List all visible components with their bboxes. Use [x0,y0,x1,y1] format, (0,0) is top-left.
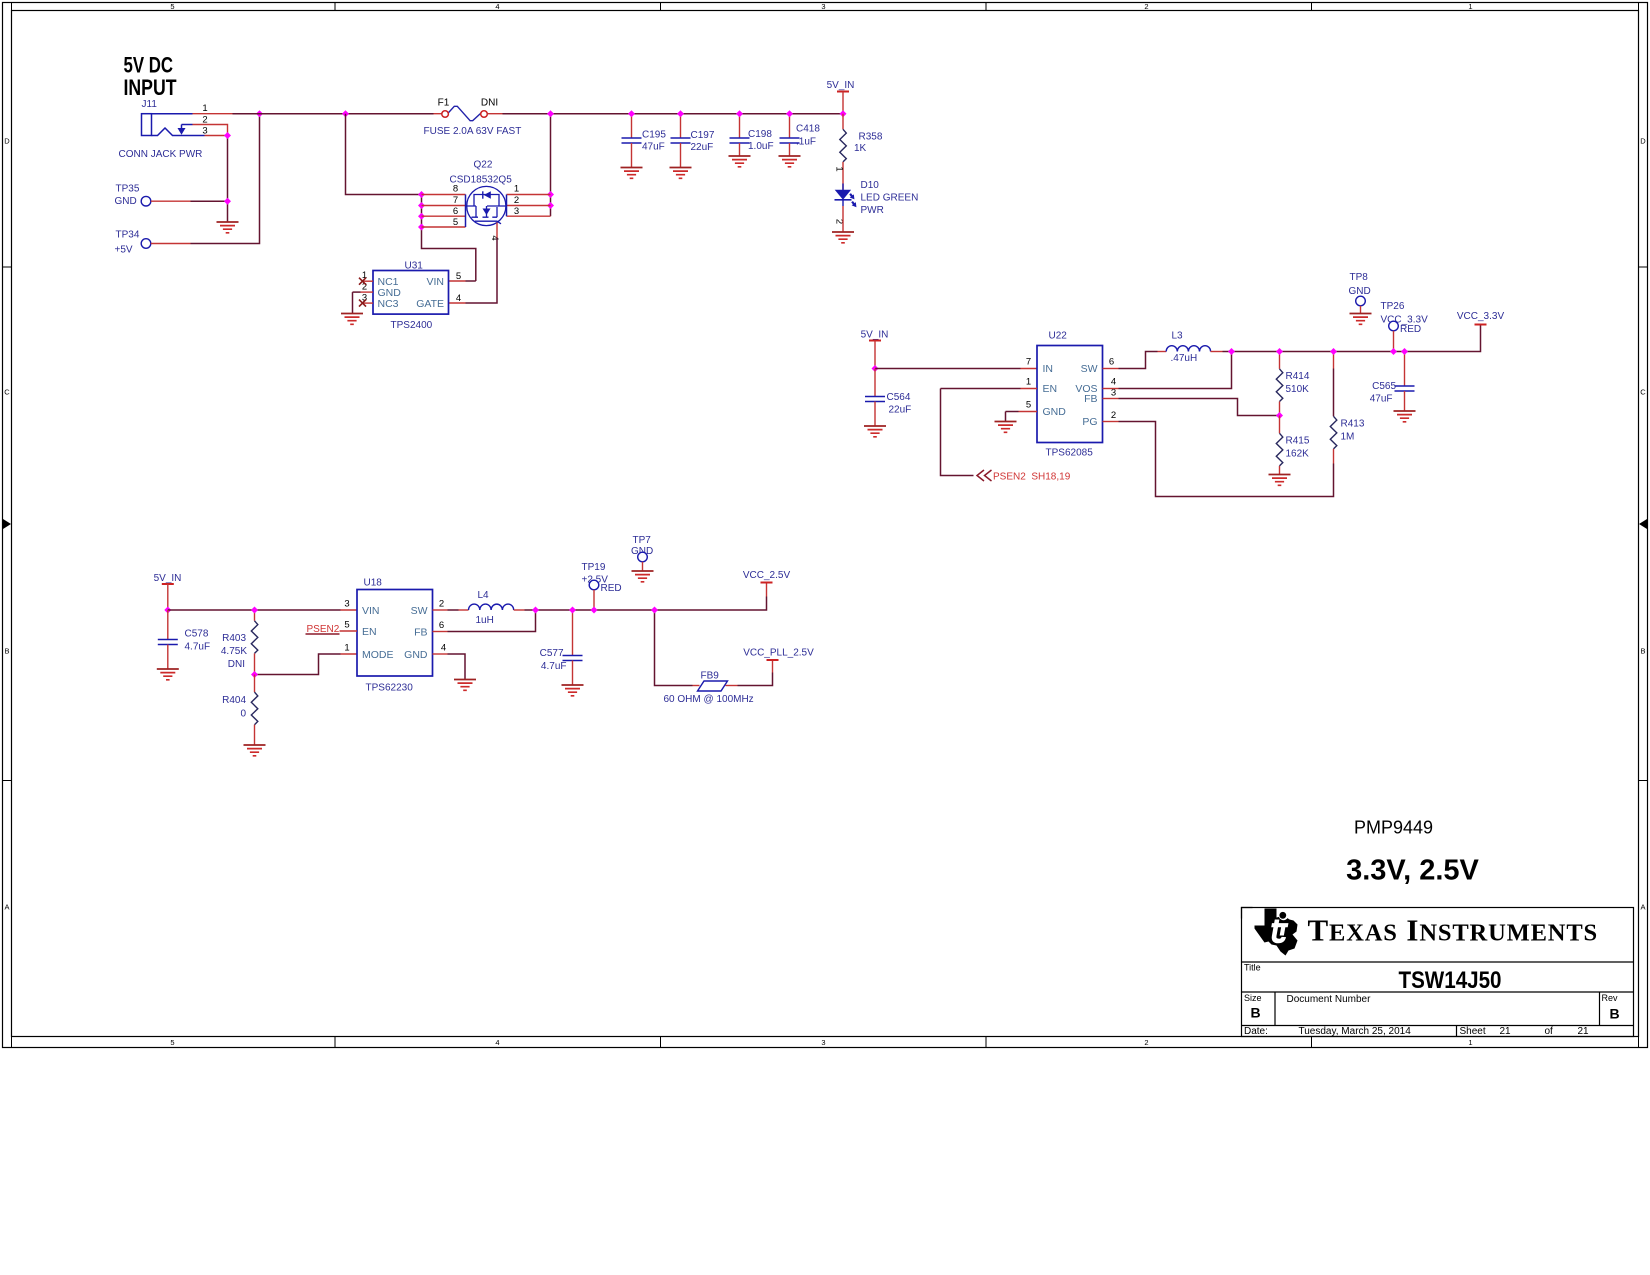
svg-text:C: C [1640,388,1646,397]
wire 5V_IN to U22 IN [875,368,1021,370]
node junction R403 top [251,607,258,614]
resistor R415 162K [1276,416,1310,475]
svg-text:FUSE 2.0A 63V FAST: FUSE 2.0A 63V FAST [424,126,522,137]
ferrite bead FB9 60 OHM [664,671,754,706]
svg-text:2: 2 [202,114,207,125]
node junctions Q22 left [418,191,425,198]
svg-text:2: 2 [1144,1038,1148,1047]
ground at R404 [244,745,266,756]
svg-text:PWR: PWR [861,205,884,216]
wire U31 GND pin to ground [361,291,374,293]
op-amp U18 TPS62230 [344,578,446,694]
wire U22 FB [1103,398,1119,400]
svg-text:GND: GND [1349,286,1371,297]
test point TP8 GND [1349,272,1371,314]
svg-text:FB: FB [414,627,427,639]
svg-text:F1: F1 [438,98,450,109]
svg-text:1: 1 [1468,1038,1472,1047]
svg-text:R404: R404 [222,695,246,706]
svg-text:NC3: NC3 [378,298,399,310]
wire main 5V bus left [233,113,434,115]
node junction FB9 branch [651,607,658,614]
svg-text:Date:: Date: [1244,1026,1268,1037]
svg-text:+5V: +5V [115,245,133,256]
svg-text:6: 6 [453,206,458,217]
wire TP35 to gnd net [151,200,191,202]
node junction L3 out [1228,348,1235,355]
net label PSEN2 (U18 EN) [306,624,358,635]
ground at D10 [832,232,854,243]
title block frame [1242,908,1634,1037]
ground at U31 [341,314,363,325]
svg-text:1: 1 [202,103,207,114]
svg-text:2: 2 [439,599,444,610]
svg-text:Tuesday, March 25, 2014: Tuesday, March 25, 2014 [1299,1026,1412,1037]
capacitor C565 47uF [1370,352,1416,422]
svg-text:MODE: MODE [362,649,394,661]
svg-text:21: 21 [1578,1026,1590,1037]
svg-text:GND: GND [115,196,137,207]
svg-text:C564: C564 [887,392,911,403]
svg-text:PSEN2 SH18,19: PSEN2 SH18,19 [993,472,1071,483]
svg-text:1K: 1K [854,143,867,154]
svg-text:1M: 1M [1341,432,1355,443]
svg-text:VIN: VIN [426,276,444,288]
wire U31 VIN pin stub [449,280,466,282]
node junction 5V_IN/C578 [164,607,171,614]
svg-text:TP35: TP35 [116,184,140,195]
svg-text:4.75K: 4.75K [221,646,247,657]
svg-text:47uF: 47uF [1370,394,1393,405]
border frame inner [12,11,1639,1037]
ground at U18 [454,680,476,691]
capacitor C564 22uF [864,369,911,437]
svg-text:TP8: TP8 [1350,272,1369,283]
power symbol 5V_IN (U22) [861,330,889,369]
svg-text:INPUT: INPUT [124,75,177,100]
capacitor C577 4.7uF [540,610,584,696]
svg-text:TSW14J50: TSW14J50 [1399,967,1502,994]
op-amp U31 TPS2400 [359,261,461,332]
svg-text:L4: L4 [478,590,490,601]
node junction 5V_IN/C564 [872,365,879,372]
svg-text:1: 1 [1026,377,1031,388]
svg-text:A: A [4,903,9,912]
svg-text:SW: SW [411,605,428,617]
svg-text:1.0uF: 1.0uF [748,141,774,152]
svg-text:C198: C198 [748,129,772,140]
wire TP34 to +5V net [151,243,191,245]
wire J11 pin2 [193,125,228,136]
svg-text:FB: FB [1084,393,1097,405]
resistor R414 510K [1276,352,1310,416]
svg-text:3: 3 [821,1038,825,1047]
ground at TP8 [1350,314,1372,325]
svg-text:0: 0 [240,709,246,720]
svg-text:Rev: Rev [1602,993,1619,1003]
svg-text:CONN JACK PWR: CONN JACK PWR [119,149,203,160]
svg-text:162K: 162K [1286,449,1310,460]
svg-text:EN: EN [362,626,377,638]
svg-text:TP7: TP7 [633,535,652,546]
inductor L3 .47uH [1166,331,1210,365]
svg-text:510K: 510K [1286,384,1310,395]
title block texts [1244,963,1620,1038]
svg-text:7: 7 [1026,357,1031,368]
svg-text:D: D [1640,137,1646,146]
svg-text:RED: RED [601,583,622,594]
svg-text:1: 1 [834,166,845,171]
svg-text:VCC_3.3V: VCC_3.3V [1457,311,1505,322]
node junction C198 [736,110,743,117]
test point TP35 GND [115,184,151,208]
wire U22 VOS feedback [1103,388,1119,390]
svg-text:B: B [1640,647,1645,656]
node junction TP34/main [256,110,263,117]
svg-text:3: 3 [821,2,825,11]
svg-text:4.7uF: 4.7uF [185,642,211,653]
test point TP19 +2.5V RED [582,562,622,610]
node junction R358 [840,110,847,117]
fuse F1 DNI [424,98,522,138]
capacitor C195 47uF [621,114,667,179]
wire L4 out [514,609,525,611]
svg-text:4: 4 [489,235,500,240]
node junction FB divider [1276,412,1283,419]
wire to FB9 [655,610,693,686]
svg-text:GND: GND [1043,406,1067,418]
svg-text:VIN: VIN [362,605,380,617]
wire L3 to VCC_3.3V [1211,351,1223,353]
svg-text:5V_IN: 5V_IN [861,330,889,341]
svg-text:Title: Title [1244,963,1261,973]
ground at U22 [995,422,1017,433]
wire Q22 right column [550,114,552,217]
node junction R413 top [1330,348,1337,355]
svg-text:3.3V, 2.5V: 3.3V, 2.5V [1346,855,1479,887]
svg-text:R358: R358 [859,132,883,143]
svg-text:Sheet: Sheet [1460,1026,1486,1037]
wire Q22 left pin bus [422,195,476,282]
power symbol 5V_IN (top right) [827,80,855,114]
svg-text:CSD18532Q5: CSD18532Q5 [450,175,513,186]
node junction C418 [786,110,793,117]
svg-text:6: 6 [439,620,444,631]
capacitor C197 22uF [670,114,715,179]
wire FB loop [448,610,536,632]
ground at J11 [217,222,239,233]
svg-text:SW: SW [1081,363,1098,375]
svg-text:5: 5 [1026,400,1031,411]
wire main 5V bus right [503,113,844,115]
node junction C565 [1401,348,1408,355]
svg-text:TPS62230: TPS62230 [366,683,414,694]
svg-text:4: 4 [495,1038,499,1047]
TI logo bug [1255,909,1298,956]
node junction C197 [677,110,684,117]
svg-text:5: 5 [453,217,458,228]
power symbol 5V_IN (U18) [154,573,182,610]
svg-text:60 OHM @ 100MHz: 60 OHM @ 100MHz [664,694,754,705]
svg-text:21: 21 [1500,1026,1512,1037]
node junction TP35 [224,198,231,205]
svg-text:8: 8 [453,184,458,195]
svg-text:5V_IN: 5V_IN [827,80,855,91]
svg-text:DNI: DNI [228,659,245,670]
wire J11 pin1 stub [193,113,233,115]
svg-text:GND: GND [404,649,428,661]
power symbol VCC_3.3V [1457,311,1505,325]
svg-text:R414: R414 [1286,371,1310,382]
svg-text:J11: J11 [142,99,158,110]
svg-text:47uF: 47uF [642,142,665,153]
svg-text:C418: C418 [796,124,820,135]
svg-text:A: A [1640,903,1645,912]
svg-text:R413: R413 [1341,419,1365,430]
svg-text:6: 6 [1109,357,1114,368]
svg-text:1uH: 1uH [476,615,494,626]
svg-text:.47uH: .47uH [1171,353,1198,364]
capacitor C418 .1uF [779,114,821,167]
svg-text:C565: C565 [1372,381,1396,392]
svg-text:VCC_PLL_2.5V: VCC_PLL_2.5V [743,648,814,659]
svg-text:R403: R403 [222,633,246,644]
svg-text:LED GREEN: LED GREEN [861,193,919,204]
svg-text:5V_IN: 5V_IN [154,573,182,584]
ground at R415 [1269,475,1291,486]
wire 5V_IN to U18 VIN [168,609,341,611]
node junction C577 [569,607,576,614]
svg-text:3: 3 [344,599,349,610]
LED D10 GREEN PWR [834,180,919,232]
power symbol VCC_2.5V [743,570,791,583]
svg-text:4.7uF: 4.7uF [541,661,567,672]
test point TP26 VCC_3.3V RED [1381,301,1429,352]
svg-text:C197: C197 [691,130,715,141]
node junction TP19 [591,607,598,614]
svg-text:TPS62085: TPS62085 [1046,448,1094,459]
svg-text:5: 5 [344,620,349,631]
svg-text:GATE: GATE [416,298,444,310]
svg-text:PMP9449: PMP9449 [1354,818,1433,838]
svg-text:Q22: Q22 [474,160,493,171]
node junction pin3 [224,132,231,139]
svg-text:1: 1 [344,643,349,654]
svg-text:VCC_2.5V: VCC_2.5V [743,570,791,581]
svg-text:5V DC: 5V DC [124,53,174,78]
svg-text:C578: C578 [185,629,209,640]
wire main bus to Q22 left pins [346,114,422,195]
svg-text:D10: D10 [861,180,880,191]
resistor R404 0 [222,675,258,746]
svg-text:U18: U18 [364,578,383,589]
resistor R358 1K [834,114,883,190]
svg-text:4: 4 [1111,377,1116,388]
svg-text:TP19: TP19 [582,562,606,573]
inductor L4 1uH [469,590,514,626]
wire net jack-gnd vertical [227,136,229,223]
svg-text:of: of [1545,1026,1554,1037]
svg-text:.1uF: .1uF [796,137,816,148]
svg-text:B: B [1609,1006,1619,1022]
node junction R414 top [1276,348,1283,355]
svg-text:B: B [1250,1005,1260,1021]
power symbol VCC_PLL_2.5V [743,648,814,661]
svg-text:22uF: 22uF [889,405,912,416]
svg-text:TP26: TP26 [1381,301,1405,312]
svg-text:C: C [4,388,10,397]
svg-text:RED: RED [1400,324,1421,335]
transistor Q22 CSD18532Q5 [422,160,551,241]
svg-text:1: 1 [514,184,519,195]
svg-text:1: 1 [1468,2,1472,11]
svg-text:TP34: TP34 [116,230,140,241]
svg-text:IN: IN [1043,363,1054,375]
wire Q22 gate pin4 to U31 GATE [496,223,498,238]
ground at TP7 [632,571,654,582]
capacitor C578 4.7uF [157,610,210,680]
svg-text:4: 4 [495,2,499,11]
svg-text:PG: PG [1082,416,1097,428]
svg-text:5: 5 [456,271,461,282]
svg-text:D: D [4,137,10,146]
wire J11 pin3 stub [205,135,228,137]
svg-text:L3: L3 [1172,331,1184,342]
svg-text:DNI: DNI [481,98,498,109]
svg-text:U22: U22 [1049,331,1068,342]
node junction R404 [251,671,258,678]
svg-text:4: 4 [441,643,446,654]
svg-text:EN: EN [1043,383,1058,395]
wire U18 GND pin to ground [433,653,448,655]
op-amp U22 TPS62085 [1026,331,1116,459]
resistor R413 1M [1330,352,1365,464]
resistor R403 4.75K DNI [221,610,258,675]
svg-text:2: 2 [1111,410,1116,421]
test point TP7 GND [631,535,653,571]
wire U22 EN to PSEN2 [1021,388,1038,390]
svg-text:TPS2400: TPS2400 [391,320,433,331]
test point TP34 +5V [115,230,151,256]
svg-text:2: 2 [514,195,519,206]
capacitor C198 1.0uF [729,114,774,167]
wire U22 SW to L3 [1103,368,1119,370]
svg-text:3: 3 [514,206,519,217]
wire U22 GND to ground [1019,411,1038,413]
node junction main/Q22 right [547,110,554,117]
wire R403/R404 to U18 MODE [255,654,341,675]
svg-text:5: 5 [170,2,174,11]
svg-text:5: 5 [170,1038,174,1047]
wire FB9 to VCC_PLL_2.5V [726,685,738,687]
svg-text:2: 2 [1144,2,1148,11]
wire U18 SW to L4 [433,609,448,611]
svg-text:22uF: 22uF [691,142,714,153]
svg-text:Size: Size [1244,993,1262,1003]
svg-text:R415: R415 [1286,436,1310,447]
svg-text:7: 7 [453,195,458,206]
net label PSEN2 SH18,19 [977,470,1071,483]
wire U22 PG [1103,421,1119,423]
svg-text:C577: C577 [540,648,564,659]
svg-text:FB9: FB9 [701,671,720,682]
svg-text:B: B [4,647,9,656]
node junction C195 [628,110,635,117]
connector J11 CONN JACK PWR [119,99,208,160]
node junction L4 out [532,607,539,614]
svg-text:C195: C195 [642,130,666,141]
node junction TP26 [1390,348,1397,355]
svg-text:Document Number: Document Number [1287,994,1372,1005]
svg-text:4: 4 [456,293,461,304]
node junction at x345 [342,110,349,117]
